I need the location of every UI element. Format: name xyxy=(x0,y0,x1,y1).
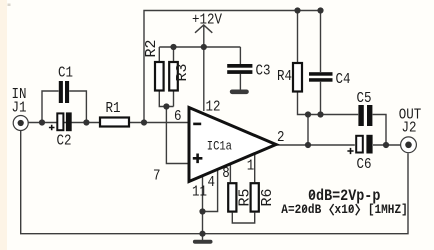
svg-text:R1: R1 xyxy=(106,101,121,117)
svg-text:A=20dB x10 [1MHZ]: A=20dB x10 [1MHZ] xyxy=(281,202,407,217)
svg-text:1: 1 xyxy=(247,159,254,175)
svg-text:2: 2 xyxy=(277,130,284,146)
svg-text:12: 12 xyxy=(206,99,221,115)
svg-text:R4: R4 xyxy=(277,69,292,85)
svg-text:7: 7 xyxy=(153,169,160,185)
svg-text:C3: C3 xyxy=(256,64,271,80)
svg-text:C1: C1 xyxy=(58,66,73,82)
svg-text:+12V: +12V xyxy=(192,13,223,29)
svg-text:11: 11 xyxy=(192,185,207,201)
svg-text:R3: R3 xyxy=(174,63,191,81)
svg-text:J1: J1 xyxy=(12,101,27,117)
svg-text:4: 4 xyxy=(208,175,215,191)
svg-text:J2: J2 xyxy=(402,121,417,137)
svg-text:R6: R6 xyxy=(259,188,276,206)
svg-text:8: 8 xyxy=(222,166,229,182)
svg-text:IC1a: IC1a xyxy=(207,140,232,154)
svg-text:R5: R5 xyxy=(237,188,254,206)
svg-text:R2: R2 xyxy=(143,39,160,57)
svg-text:C6: C6 xyxy=(357,157,372,173)
svg-text:6: 6 xyxy=(174,109,181,125)
svg-text:C5: C5 xyxy=(357,91,372,107)
svg-text:C4: C4 xyxy=(336,72,351,88)
svg-text:C2: C2 xyxy=(57,134,72,150)
